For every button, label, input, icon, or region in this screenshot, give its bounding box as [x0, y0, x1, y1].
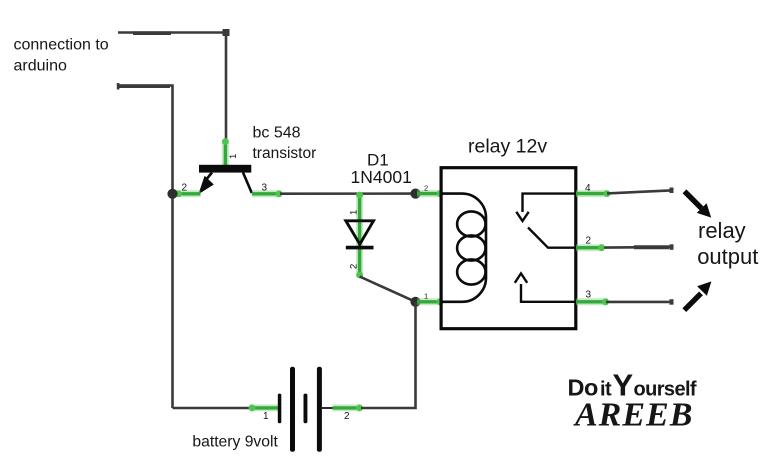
svg-text:bc 548: bc 548: [253, 124, 301, 141]
node junction dot B (top, D1 anode / relay coil): [410, 189, 420, 199]
wire W9 (battery right lead up to junction C): [361, 302, 416, 408]
relay RL1 box: [441, 168, 576, 329]
svg-text:3: 3: [262, 183, 268, 194]
svg-text:1: 1: [424, 292, 428, 301]
svg-text:arduino: arduino: [14, 58, 67, 75]
wire W8 (battery left lead): [173, 407, 252, 410]
svg-text:2: 2: [349, 264, 360, 269]
label: connection to arduino: [14, 36, 109, 74]
battery BT1 pin 2 green: [333, 405, 363, 412]
transistor Q1 base pin green (pin 1): [222, 138, 229, 167]
relay RL1 coil pin green top (pin 2): [417, 190, 443, 197]
arrow annotation top (to relay output): [685, 191, 712, 217]
svg-text:battery 9volt: battery 9volt: [192, 434, 278, 451]
transistor Q1 emitter pin green (pin 2): [175, 190, 200, 197]
wire W6 (relay pin 2 out): [604, 246, 671, 249]
wire W4 (diode cathode diagonal to bottom junction): [360, 277, 416, 302]
svg-text:AREEB: AREEB: [573, 397, 693, 434]
diode D1 symbol: [346, 221, 374, 248]
relay RL1 moving contact arm: [528, 228, 575, 248]
logo: Do it Yourself: [568, 367, 697, 402]
svg-text:2: 2: [424, 184, 428, 193]
node junction dot C (bottom, relay coil return / battery +): [410, 297, 420, 307]
wire W7 (relay pin 3 out): [606, 301, 671, 304]
svg-text:3: 3: [586, 290, 592, 301]
wire W3 (collector to diode/relay junction): [280, 192, 416, 195]
battery BT1 internal stub: [322, 407, 334, 409]
svg-text:2: 2: [182, 183, 188, 194]
terminal tick pin3 wire: [670, 299, 674, 305]
relay RL1 NO contact (pin 3): [515, 273, 575, 301]
diode D1 pin green (vertical through diode): [356, 192, 363, 279]
label: bc 548 transistor: [253, 124, 317, 162]
wire W6 overdraw artifact: [634, 245, 669, 249]
wire W1 (arduino line 1 to transistor base): [118, 33, 226, 142]
node junction dot A (base of wire2 / Q1 emitter): [167, 189, 177, 199]
wire W5 (relay pin 4 out): [607, 190, 671, 193]
svg-text:1: 1: [349, 210, 360, 215]
wire W1 overdraw artifact: [133, 31, 171, 35]
battery BT1 pin 1 green: [249, 405, 280, 412]
svg-text:1: 1: [263, 411, 269, 422]
label: relay output: [697, 218, 758, 269]
svg-text:relay: relay: [698, 218, 746, 243]
relay RL1 coil: [443, 194, 487, 302]
terminal tick pin4 wire: [670, 188, 674, 194]
terminal tick pin2 wire: [670, 244, 674, 250]
transistor Q1 collector pin green (pin 3): [252, 190, 282, 197]
relay RL1 pin 3 green: [576, 298, 609, 305]
node corner dot W1: [223, 29, 230, 36]
svg-text:connection to: connection to: [14, 36, 109, 53]
svg-text:2: 2: [344, 411, 350, 422]
relay RL1 pin 2 green: [576, 244, 605, 251]
arrow annotation bottom (to relay output): [684, 281, 711, 310]
svg-text:1: 1: [228, 154, 239, 159]
svg-text:transistor: transistor: [253, 145, 317, 162]
svg-text:relay 12v: relay 12v: [468, 135, 547, 157]
svg-text:4: 4: [585, 183, 591, 194]
svg-text:1N4001: 1N4001: [351, 167, 412, 187]
battery BT1 symbol: [278, 367, 322, 452]
transistor Q1 body: [198, 165, 251, 194]
wire W2 end tick: [117, 83, 120, 90]
relay RL1 coil pin green bottom (pin 1): [417, 298, 443, 305]
svg-text:output: output: [697, 244, 758, 269]
label: D1 1N4001: [351, 150, 412, 187]
wire W2 overdraw artifact: [119, 84, 170, 88]
svg-text:2: 2: [586, 236, 592, 247]
relay RL1 common contact (from pin 4): [516, 194, 575, 221]
relay RL1 pin 4 green: [576, 190, 610, 197]
wire W2 (arduino line 2 down to battery corner): [118, 86, 173, 409]
